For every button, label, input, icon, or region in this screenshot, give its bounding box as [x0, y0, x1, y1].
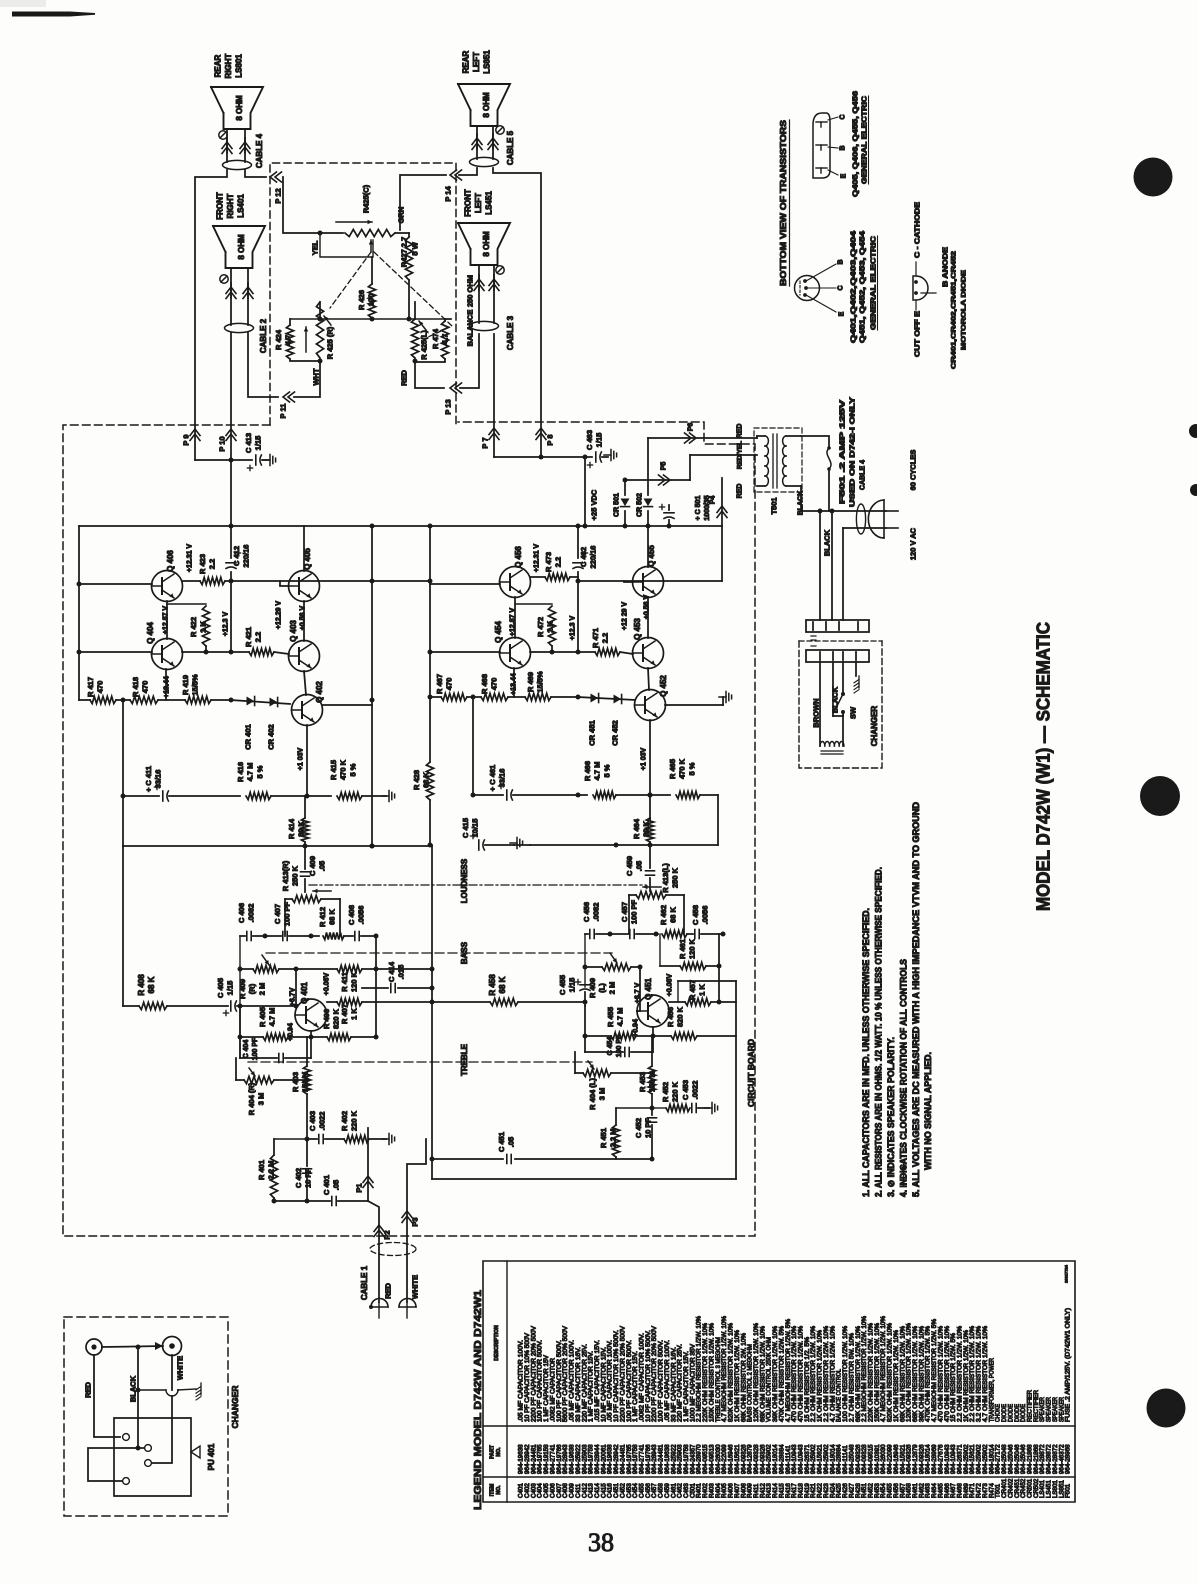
power transistor package [813, 113, 830, 178]
svg-text:R 461: R 461 [678, 939, 687, 959]
svg-text:R 451: R 451 [599, 1128, 608, 1148]
potentiometer R413(L) 250K [629, 885, 684, 934]
label CABLE 3 [506, 315, 515, 350]
label RED/YEL [736, 441, 743, 469]
wire rear-left to P14 [459, 168, 477, 175]
svg-text:Q 402: Q 402 [315, 681, 324, 703]
speaker LS851 rear left [458, 84, 510, 126]
label C454 [607, 1034, 623, 1057]
label R402 [340, 1110, 359, 1131]
svg-text:R 412: R 412 [318, 907, 327, 927]
svg-text:LEFT: LEFT [472, 52, 481, 72]
svg-text:Q 404: Q 404 [146, 622, 155, 644]
resistor R466 4.7M [593, 791, 670, 798]
cable ellipse LS451 front left [470, 321, 499, 330]
interlock connector lower [806, 650, 869, 662]
svg-text:R 426: R 426 [357, 290, 366, 310]
svg-text:8 OHM: 8 OHM [235, 95, 244, 121]
power transistor pin labels [828, 114, 848, 178]
label Q404 [146, 622, 155, 644]
svg-text:R425(C): R425(C) [362, 184, 371, 213]
dashed box balance control [270, 163, 456, 425]
resistor R473 2.2 [530, 573, 578, 580]
label CABLE 4 [255, 133, 264, 168]
resistor R401 2.2M [270, 1139, 307, 1201]
capacitor C462 220/16 [573, 524, 588, 653]
wire right low rail [472, 697, 474, 795]
svg-text:GRN: GRN [397, 207, 406, 224]
svg-text:CIRCUIT BOARD: CIRCUIT BOARD [746, 1039, 756, 1107]
cable ellipse LS401 front right [225, 323, 254, 332]
wire P14 to R425C [400, 175, 446, 230]
svg-text:+12.29 V: +12.29 V [276, 601, 283, 630]
drawing number [1063, 1264, 1068, 1283]
label R464 [632, 818, 651, 839]
svg-text:+0.94: +0.94 [633, 1019, 640, 1037]
capacitor C454 100PF [585, 1027, 653, 1057]
svg-text:F501 .2 AMP 125V: F501 .2 AMP 125V [840, 399, 847, 504]
svg-text:CABLE 3: CABLE 3 [506, 315, 515, 350]
plug P1 [355, 1176, 373, 1193]
wire front-left to P13 [415, 334, 479, 388]
wire C461 row [471, 793, 504, 798]
label R453 [638, 1071, 657, 1092]
label +13.44 right [511, 673, 518, 695]
svg-text:R 423: R 423 [198, 554, 207, 574]
label GRN [397, 207, 406, 224]
pickup box PU401 [114, 1418, 191, 1496]
svg-text:RED: RED [384, 1283, 393, 1299]
label C404 [243, 1037, 259, 1060]
svg-text:CHANGER: CHANGER [870, 706, 879, 747]
diode CR501 [614, 480, 630, 526]
transistor Q454 [500, 638, 531, 669]
transistor Q455 [633, 567, 664, 598]
label C451 [497, 1132, 516, 1152]
svg-text:CR 401: CR 401 [244, 724, 253, 749]
label WHT [312, 368, 321, 385]
plug chevrons LS401 front right [226, 287, 253, 299]
svg-text:2.2 M: 2.2 M [609, 1129, 618, 1148]
AC cable ellipse [856, 504, 865, 534]
wire Q402 emitter down [298, 725, 307, 796]
wires LS851 rear left to cable [477, 126, 493, 159]
label C406 [237, 903, 256, 923]
wire right end to bus [717, 795, 719, 845]
resistor R411 120K [296, 965, 432, 972]
svg-text:39 K: 39 K [642, 820, 651, 836]
resistor R426 100 [368, 257, 375, 322]
potentiometer R404(R) 3M [236, 1058, 307, 1084]
svg-text:10/15: 10/15 [471, 819, 480, 838]
svg-text:3. ⊘ INDICATES SPEAKER POL: 3. ⊘ INDICATES SPEAKER POLARITY. [886, 1037, 896, 1197]
svg-text:+0.94: +0.94 [288, 1023, 295, 1041]
svg-text:R 413(L): R 413(L) [661, 863, 670, 893]
svg-text:.0056: .0056 [701, 906, 710, 925]
resistor R421 2.2 [249, 648, 289, 655]
svg-text:470: 470 [141, 681, 150, 694]
svg-text:R 473: R 473 [544, 552, 553, 572]
wire front-right to P10 [230, 333, 232, 526]
resistor R422 1K [167, 604, 210, 652]
label R411 [340, 971, 359, 992]
svg-text:4.7 M: 4.7 M [268, 1008, 277, 1027]
svg-text:R 404 (R): R 404 (R) [247, 1082, 256, 1115]
capacitor C403 .0022 [305, 1135, 345, 1144]
label Q401 series [851, 231, 858, 343]
label +12.3V right [570, 616, 577, 641]
label R417 [86, 677, 105, 697]
svg-text:BALANCE: BALANCE [466, 310, 475, 347]
svg-text:C: C [838, 285, 845, 290]
svg-text:C 415: C 415 [461, 818, 470, 838]
svg-text:R 403: R 403 [291, 1072, 300, 1092]
svg-text:R 418: R 418 [131, 677, 140, 697]
svg-text:Q 403: Q 403 [289, 620, 298, 642]
svg-text:4.7 M: 4.7 M [616, 1008, 625, 1027]
label R456 [666, 1006, 685, 1027]
plug chevrons LS451 front left [474, 279, 499, 291]
svg-text:+ C 501: + C 501 [695, 496, 702, 521]
fuse F501 [801, 436, 831, 511]
wire right of diode row [322, 704, 372, 706]
wire P4 [721, 478, 723, 526]
wire P6 row [648, 437, 757, 439]
ground amp left [382, 791, 395, 802]
svg-text:.015: .015 [397, 965, 406, 980]
label R457 [688, 980, 707, 1000]
cable ellipse LS801 rear right [223, 160, 252, 169]
label Q405 Q406 Q455 Q456 [853, 91, 860, 197]
label CABLE 5 [506, 130, 515, 165]
svg-text:C 404: C 404 [243, 1040, 250, 1059]
diode CR451 [591, 694, 599, 703]
label R409R [238, 979, 266, 999]
left rail [77, 526, 82, 700]
wire C451 row [430, 1157, 504, 1162]
label BLACK wire [823, 529, 832, 556]
svg-text:4.7: 4.7 [441, 334, 450, 344]
svg-text:220 K: 220 K [350, 1110, 359, 1131]
capacitor C463 1/15 [587, 450, 616, 468]
svg-text:R 421: R 421 [244, 627, 253, 647]
label CHANGER right [870, 706, 879, 747]
potentiometer R409(L) 2M [585, 953, 640, 971]
svg-text:Q401,Q402,Q403,Q404: Q401,Q402,Q403,Q404 [851, 231, 858, 343]
speaker polarity symbol LS851 rear left [496, 126, 504, 134]
label +12.87V right [510, 608, 517, 637]
label R461 [678, 938, 697, 959]
svg-text:5 %: 5 % [255, 765, 264, 778]
label GENERAL ELECTRIC upper [862, 96, 869, 184]
svg-text:GENERAL ELECTRIC: GENERAL ELECTRIC [871, 236, 878, 330]
label WHITE bottom [176, 1356, 185, 1380]
svg-text:P4: P4 [710, 496, 717, 505]
speaker polarity symbol LS801 rear right [219, 131, 227, 139]
switch SW [833, 690, 845, 716]
svg-text:470: 470 [96, 681, 105, 694]
svg-text:.0022: .0022 [318, 1112, 327, 1131]
svg-text:R 414: R 414 [287, 818, 296, 839]
resistor R453 150K [648, 1036, 655, 1115]
label LS451 front left [463, 189, 493, 217]
capacitor C409 .05 [301, 846, 310, 892]
label R403 [291, 1071, 310, 1092]
mid vertical bus [370, 526, 375, 849]
svg-text:60 CYCLES: 60 CYCLES [909, 450, 918, 491]
label R469 [526, 671, 545, 693]
wire Q406-Q404 [166, 601, 168, 639]
wire emitter row left [182, 650, 249, 655]
svg-text:C 452: C 452 [634, 1118, 643, 1138]
wire base Q406 [79, 583, 152, 585]
svg-text:C 412: C 412 [232, 546, 241, 566]
mid rail x432 [430, 845, 435, 1179]
label C458 [691, 905, 710, 925]
label R425(R) [326, 326, 335, 359]
svg-text:+12.87 V: +12.87 V [510, 608, 517, 637]
diode leads [916, 262, 936, 310]
label Q406 [166, 550, 175, 572]
svg-text:4. INDICATES CLOCKWISE: 4. INDICATES CLOCKWISE ROTATION OF ALL C… [899, 959, 909, 1197]
svg-text:C 453: C 453 [681, 1080, 690, 1100]
label PU 401 [191, 1443, 216, 1470]
label R468 [480, 674, 499, 694]
svg-text:+12.3 V: +12.3 V [570, 616, 577, 641]
resistor R456 820K [653, 1032, 736, 1039]
transistor Q456 [500, 567, 531, 598]
label T501 [770, 497, 779, 514]
treble gang dash [248, 1061, 592, 1063]
gang dashed R425C-R425R [330, 252, 371, 308]
svg-text:RED: RED [737, 424, 744, 439]
svg-text:C 414: C 414 [387, 961, 396, 982]
wire to P2 [368, 1201, 379, 1302]
svg-text:+1 03V: +1 03V [641, 747, 648, 770]
small transistor leads [806, 259, 846, 316]
svg-text:R 472: R 472 [536, 617, 545, 637]
label C456 [582, 902, 601, 922]
legend table headers [490, 1325, 503, 1496]
wire bus to right rail [721, 526, 723, 581]
registration mark top-left [0, 0, 46, 7]
svg-text:R 456: R 456 [666, 1007, 675, 1027]
svg-text:820 K: 820 K [676, 1006, 685, 1027]
label C401 [322, 1175, 341, 1195]
label BALANCE 250 OHM [466, 275, 475, 346]
svg-text:R 425(L): R 425(L) [420, 330, 429, 360]
svg-text:R 465: R 465 [668, 759, 677, 779]
label R474 [431, 328, 450, 349]
svg-text:P6: P6 [688, 423, 695, 432]
label CABLE 4 power [860, 460, 867, 490]
label BLACK changer [831, 686, 840, 713]
resistor R408 68K [123, 1002, 228, 1009]
wire R425C to P14 branch [395, 232, 409, 234]
label C412 [232, 545, 251, 568]
wire C401 row [272, 1199, 331, 1204]
capacitor C413 1/15 [247, 455, 275, 471]
svg-text:PART: PART [490, 1444, 496, 1459]
diode CR502 [637, 438, 653, 526]
svg-text:8 OHM: 8 OHM [482, 231, 491, 257]
label Q454 [494, 621, 503, 643]
svg-text:C 408: C 408 [347, 905, 356, 925]
svg-text:C 463: C 463 [585, 430, 594, 450]
svg-text:R 457: R 457 [688, 980, 697, 1000]
svg-text:P 8: P 8 [546, 434, 555, 445]
svg-text:R 466: R 466 [583, 761, 592, 781]
wire Q451 base [637, 965, 643, 1012]
svg-text:R 419: R 419 [181, 675, 190, 695]
label R473 [544, 552, 563, 572]
label R412 [318, 907, 337, 927]
svg-text:5 %: 5 % [687, 762, 696, 775]
svg-text:CHANGER: CHANGER [230, 1386, 240, 1429]
svg-text:2.2: 2.2 [554, 557, 563, 567]
svg-text:R 422: R 422 [189, 617, 198, 637]
transistor Q402 [292, 695, 323, 726]
transformer T501 core [773, 434, 777, 488]
label R404R [247, 1082, 266, 1115]
label CR401 [244, 724, 253, 749]
label CHANGER bottom [230, 1386, 240, 1429]
speaker LS801 rear right [211, 87, 263, 129]
svg-text:2.2: 2.2 [601, 633, 610, 643]
label R423 [198, 554, 217, 574]
wire to P3 [407, 1139, 426, 1302]
svg-text:R 467: R 467 [435, 674, 444, 694]
label LS401 front right [215, 192, 245, 220]
label R427 [400, 237, 420, 267]
capacitor C501 1000/35 [659, 504, 674, 526]
svg-text:R427 2.7: R427 2.7 [400, 237, 409, 267]
plug chevrons LS851 rear left [472, 138, 498, 150]
label C407 [273, 901, 292, 926]
svg-text:33/16: 33/16 [498, 769, 507, 788]
legend table title [472, 1290, 484, 1510]
capacitor C459 .05 [646, 845, 655, 891]
svg-text:3 M: 3 M [598, 1088, 607, 1101]
diode CR452 [614, 695, 622, 704]
label RED changer [84, 1382, 93, 1398]
label Q402 [315, 681, 324, 703]
svg-text:+0.08V: +0.08V [667, 973, 674, 996]
chassis ground changer [854, 676, 859, 693]
label R415 [329, 759, 357, 780]
changer motor coil [820, 716, 844, 754]
svg-text:RIGHT: RIGHT [226, 193, 235, 218]
svg-text:R 455: R 455 [606, 1007, 615, 1027]
svg-text:C 405: C 405 [216, 978, 225, 998]
label GENERAL ELECTRIC lower [871, 236, 878, 330]
potentiometer R425(R) [316, 302, 331, 364]
resistor R474 4.7 [415, 319, 451, 362]
svg-text:R 453: R 453 [638, 1072, 647, 1092]
resistor R458 68K [432, 998, 588, 1005]
label C457 [620, 899, 639, 924]
svg-text:Q 401: Q 401 [300, 982, 309, 1004]
label C461 [488, 765, 507, 791]
svg-text:WHT: WHT [312, 368, 321, 385]
svg-text:C - CATHODE: C - CATHODE [915, 202, 922, 258]
jack bus wire [102, 1342, 163, 1350]
ground tone left [382, 1134, 395, 1145]
right channel rail [428, 526, 433, 848]
svg-text:220/16: 220/16 [589, 546, 598, 569]
wire left low rail [122, 700, 124, 846]
diode CR402 [270, 698, 278, 707]
resistor chain R417 R418 R419 [79, 696, 231, 703]
phono jack white [163, 1337, 182, 1356]
resistor R403 150K [303, 1037, 310, 1139]
svg-text:C 406: C 406 [237, 903, 246, 923]
svg-text:REAR: REAR [461, 50, 470, 73]
svg-text:RED: RED [737, 484, 744, 499]
resistor R416 4.7M [246, 792, 331, 799]
svg-text:CR 502: CR 502 [637, 493, 644, 517]
label +12.87V [163, 606, 170, 635]
long bus y846 [123, 844, 432, 849]
svg-text:C 407: C 407 [273, 904, 282, 924]
label BLACK bottom [129, 1375, 138, 1402]
ground wire changer [138, 1389, 196, 1390]
svg-text:USED ON D742-I ONLY: USED ON D742-I ONLY [850, 397, 857, 507]
svg-text:SW: SW [849, 706, 858, 719]
svg-text:39 K: 39 K [297, 820, 306, 836]
label C402 [294, 1168, 313, 1188]
page number 38 [588, 1528, 614, 1557]
svg-text:38: 38 [588, 1528, 614, 1557]
svg-text:+25 VDC: +25 VDC [590, 489, 599, 520]
svg-text:4.7 M: 4.7 M [246, 763, 255, 782]
plug P9 [182, 429, 200, 446]
label Q452 [659, 675, 668, 697]
label R416 [236, 762, 264, 782]
label Q405 [303, 548, 312, 570]
capacitor C414 .015 [362, 984, 432, 993]
svg-text:1/15: 1/15 [595, 433, 604, 448]
wire Q452 emitter down [641, 720, 653, 820]
resistor R465 470K [676, 791, 718, 798]
label SW [849, 706, 858, 719]
svg-text:68 K: 68 K [669, 906, 678, 922]
label BLACK transformer [798, 491, 805, 516]
svg-text:+12.31 V: +12.31 V [534, 544, 541, 573]
svg-text:33/16: 33/16 [154, 770, 163, 789]
label C452 [634, 1118, 653, 1138]
svg-text:R 401: R 401 [257, 1160, 266, 1180]
label R428 [412, 770, 431, 790]
label C462 [579, 546, 598, 569]
dash-dot loudness gang [309, 884, 646, 886]
capacitor C455 1/15 [575, 934, 590, 1006]
gang dashed R425C-R425L [374, 252, 452, 337]
svg-text:E: E [839, 311, 846, 316]
label C409 [308, 856, 327, 876]
black dot right top [1134, 158, 1173, 197]
label WHITE cable1 [411, 1275, 420, 1299]
transistor Q451 [637, 995, 669, 1027]
svg-text:R 411: R 411 [340, 972, 349, 992]
wire black to terminal [138, 1447, 144, 1449]
svg-text:CR401,CR402,CR451,CR452: CR401,CR402,CR451,CR452 [950, 250, 957, 369]
resistor R405 4.7M [238, 1006, 314, 1058]
svg-text:BROWN: BROWN [812, 698, 821, 727]
svg-text:470 K: 470 K [678, 758, 687, 779]
speaker LS451 front left [458, 223, 510, 265]
svg-text:Q 456: Q 456 [514, 546, 523, 568]
